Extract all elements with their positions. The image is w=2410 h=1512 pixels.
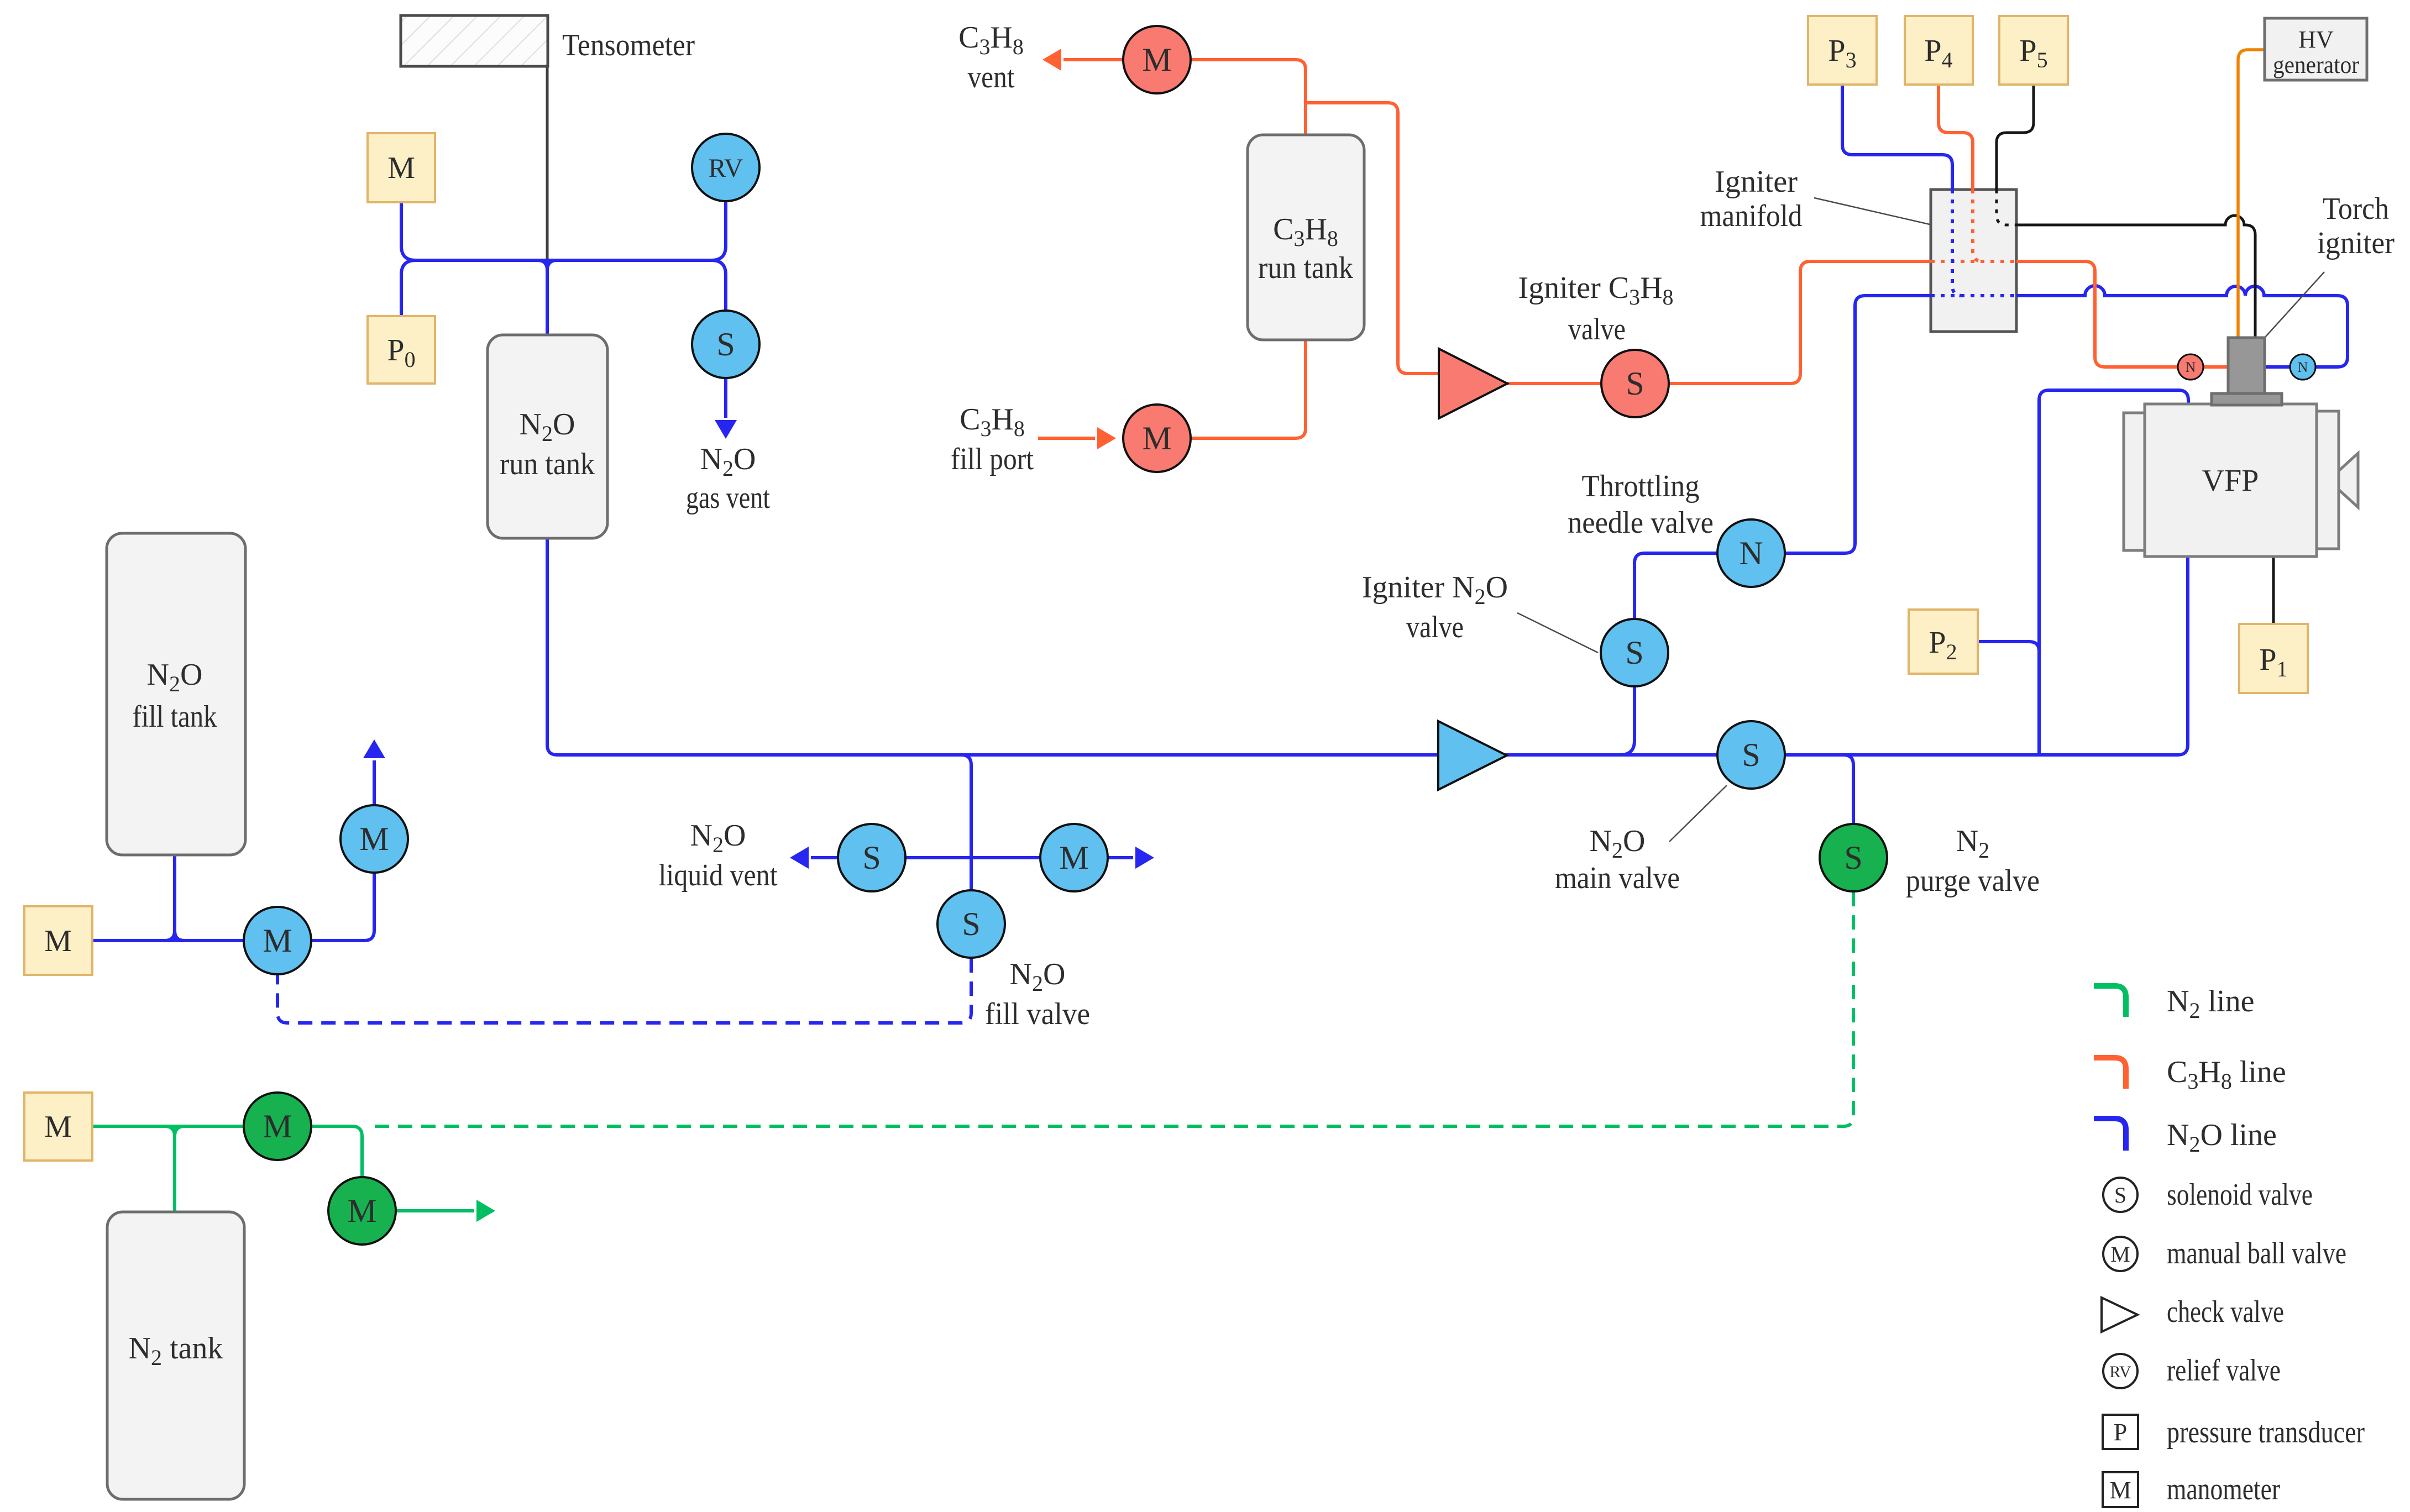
wire liquid vent horizontal [811,856,1133,859]
pressure transducer P1 [2239,624,2308,693]
wire C3H8 vent line [1192,60,1306,135]
wire liquid vent drop from main line [961,755,971,891]
svg-text:gas vent: gas vent [686,481,770,515]
check valve C3H8 [1439,349,1507,418]
svg-text:N: N [2298,359,2308,375]
legend manometer symbol [2103,1472,2138,1507]
svg-text:generator: generator [2273,51,2359,78]
svg-text:purge valve: purge valve [1906,864,2040,898]
svg-text:N2O: N2O [700,442,756,481]
legend N2 line symbol [2094,986,2126,1017]
igniter manifold [1931,190,2016,332]
manual valve C3H8 vent [1123,26,1191,93]
svg-text:manifold: manifold [1700,199,1803,233]
wire fill-tank header [92,939,244,942]
HV generator box [2265,18,2367,80]
svg-text:Igniter C3H8: Igniter C3H8 [1518,271,1673,309]
svg-text:M: M [387,151,415,185]
relief valve RV [692,134,759,201]
svg-text:N: N [1739,535,1763,571]
pressure transducer P2 [1909,610,1978,674]
svg-text:M: M [2109,1477,2131,1504]
wire igniter N2O valve branch to main line [1620,686,1634,755]
wire N2O fill tank drop [165,855,185,941]
UNDER-LAYER [1931,190,2016,332]
pressure transducer P0 [368,316,435,384]
arrowhead C3H8 vent [1042,49,1061,71]
svg-text:M: M [263,922,292,959]
svg-text:S: S [962,906,980,942]
svg-text:fill tank: fill tank [133,700,217,734]
svg-text:valve: valve [1406,610,1464,644]
wire S gas-vent to header [711,260,726,311]
wire N2 tank drop [165,1126,185,1212]
wire spark lead manifold to torch with hop [2016,216,2255,338]
svg-text:M: M [359,821,389,857]
svg-text:P: P [2114,1419,2127,1446]
svg-text:relief valve: relief valve [2167,1353,2281,1388]
wire needle valve to igniter line riser [1784,296,1931,553]
wire N2 M1 to M2 [311,1126,362,1177]
legend C3H8 line symbol [2094,1058,2126,1089]
solenoid valve igniter C3H8 [1601,350,1669,417]
VFP right flange [2317,411,2339,549]
wire N2O fill vent arrow [373,760,376,805]
svg-text:S: S [1626,365,1644,402]
manual valve N2O fill line [244,907,311,974]
torch igniter body [2228,338,2265,393]
svg-text:M: M [2110,1242,2130,1267]
solenoid valve N2O fill [937,890,1005,958]
solenoid valve liquid vent [838,824,905,891]
pressure transducer P3 [1808,16,1877,85]
svg-text:N2: N2 [1956,824,1989,863]
wire igniter C3H8 valve to manifold [1669,261,1931,384]
svg-text:M: M [1142,420,1171,456]
svg-text:N2 tank: N2 tank [129,1331,223,1370]
wire C3H8 fill port arrow [1038,437,1095,440]
wire gas vent arrow [724,377,727,418]
arrowhead C3H8 fill [1097,427,1116,449]
node N red torch inlet [2178,354,2203,380]
svg-text:run tank: run tank [500,447,595,481]
callout igniter manifold [1814,198,1930,224]
svg-text:M: M [1142,41,1171,78]
legend check valve symbol [2102,1298,2137,1332]
svg-text:manual ball valve: manual ball valve [2167,1236,2346,1271]
wire P3 lead [1842,85,1952,190]
wire C3H8 branch to check valve [1306,103,1439,374]
svg-text:S: S [716,326,735,363]
callout torch igniter [2265,272,2324,337]
svg-text:N: N [2186,359,2196,375]
arrowhead fill vent up [363,739,385,758]
manual valve N2 outlet [328,1177,396,1245]
N2O fill tank [107,533,245,855]
wire P4 lead [1939,85,1973,190]
solenoid valve gas vent [692,311,759,378]
wire VFP injector loop riser [2039,390,2188,755]
wire C3H8 vent after M [1063,58,1123,61]
svg-text:Igniter: Igniter [1715,165,1798,199]
legend solenoid valve symbol [2103,1178,2137,1212]
manual valve N2 line [244,1093,311,1160]
manometer box N2 line [24,1093,92,1161]
svg-text:HV: HV [2298,26,2334,53]
arrowhead liquid vent left [790,847,809,869]
torch igniter base [2212,393,2282,405]
svg-text:N2O: N2O [690,818,746,857]
VFP nozzle [2339,453,2358,507]
arrowhead N2 outlet [476,1200,495,1222]
svg-text:pressure transducer: pressure transducer [2167,1415,2365,1450]
svg-text:igniter: igniter [2317,226,2395,260]
wire M0 to RV (top pressurant header) [401,201,726,260]
VFP left flange [2124,413,2145,550]
manometer box M0 [368,133,435,202]
svg-text:C3H8: C3H8 [958,20,1024,59]
tensometer [401,15,548,66]
arrowhead liquid vent right [1135,847,1154,869]
pressure transducer P4 [1905,16,1973,85]
callout N2O main valve [1669,785,1727,842]
wire P0 to header [401,260,416,316]
tensometer rod [546,66,549,259]
svg-text:M: M [1059,839,1088,876]
svg-text:S: S [1625,634,1643,671]
svg-text:vent: vent [968,60,1015,95]
wire P2 stub [1978,642,2039,652]
svg-text:Igniter N2O: Igniter N2O [1362,570,1508,609]
svg-text:liquid vent: liquid vent [659,858,778,893]
svg-text:M: M [44,924,72,958]
svg-text:N2 line: N2 line [2167,984,2254,1023]
wire header to N2O run tank top [537,260,557,335]
svg-text:valve: valve [1568,312,1626,347]
manual valve N2O fill vent [340,805,408,873]
solenoid valve N2 purge [1820,824,1887,891]
svg-text:RV: RV [709,154,743,183]
legend pressure transducer symbol [2103,1415,2138,1449]
wire P3 dotted inside manifold [1952,190,1962,296]
svg-text:N2O line: N2O line [2167,1118,2277,1157]
wire dashed N2O fill line [277,958,971,1023]
svg-text:Torch: Torch [2323,192,2389,226]
svg-text:M: M [347,1193,376,1229]
svg-text:M: M [263,1108,292,1144]
svg-text:S: S [1844,839,1862,876]
wire N2O run tank to main line and main line to VFP bottom [547,538,2188,755]
svg-text:main valve: main valve [1555,861,1680,895]
pressure transducer P5 [1999,16,2068,85]
wire fill M to tank bottom [1191,340,1306,438]
manual valve C3H8 fill [1123,405,1191,472]
C3H8 run tank [1248,135,1364,340]
manual valve liquid vent [1040,824,1108,891]
WIRES-LAYER [92,49,2348,1222]
svg-text:N2O: N2O [1590,824,1646,863]
svg-text:run tank: run tank [1258,251,1353,285]
svg-text:N2O: N2O [1010,957,1066,996]
arrowhead gas vent [715,420,737,439]
wire M ball to vent riser [311,873,374,941]
svg-text:Tensometer: Tensometer [562,28,695,62]
wire HV generator lead [2238,50,2265,338]
svg-text:C3H8 line: C3H8 line [2167,1055,2286,1094]
svg-text:fill valve: fill valve [985,997,1090,1031]
wire igniter C3H8 manifold to torch [2016,261,2228,367]
wire P5 dotted inside manifold [1997,190,2016,225]
VFP body [2145,404,2317,556]
wire purge valve branch [1843,755,1853,825]
wire VFP to P1 [2272,556,2275,624]
svg-text:check valve: check valve [2167,1295,2284,1329]
wire igniter C3H8 dotted through manifold [1931,260,2016,263]
node N blue torch inlet [2290,354,2315,380]
legend manual ball valve symbol [2103,1237,2137,1271]
svg-text:RV: RV [2109,1363,2131,1381]
solenoid valve N2O main [1717,721,1785,789]
svg-text:needle valve: needle valve [1568,506,1714,540]
svg-text:VFP: VFP [2202,464,2259,498]
svg-text:S: S [862,839,881,876]
svg-text:Throttling: Throttling [1582,469,1700,503]
wire check valve to igniter C3H8 valve [1507,382,1601,385]
wire igniter N2O line dotted through manifold [1931,294,2016,297]
svg-text:C3H8: C3H8 [960,402,1025,441]
needle valve throttling [1717,519,1785,587]
wire P4 dotted inside manifold [1973,190,1983,261]
legend N2O line symbol [2094,1119,2126,1151]
svg-text:fill port: fill port [951,442,1034,476]
svg-text:solenoid valve: solenoid valve [2167,1178,2313,1212]
svg-text:manometer: manometer [2167,1472,2280,1506]
manometer box fill line [24,906,92,975]
check valve N2O [1438,721,1507,790]
solenoid valve igniter N2O [1601,619,1668,686]
legend relief valve symbol [2103,1354,2137,1388]
N2O run tank [488,335,607,538]
wire N2 outlet arrow [396,1209,474,1212]
svg-text:M: M [44,1110,72,1144]
wire P5 lead [1997,85,2034,190]
callout igniter N2O valve [1517,613,1598,653]
svg-text:S: S [1742,737,1760,773]
svg-text:S: S [2114,1183,2126,1208]
N2 tank [107,1212,244,1499]
wire igniter N2O valve to throttling needle valve [1634,553,1718,619]
wire N2 header [92,1125,244,1128]
wire igniter N2O line manifold to torch with hops [2016,286,2348,367]
wire dashed N2 purge line [375,891,1853,1126]
